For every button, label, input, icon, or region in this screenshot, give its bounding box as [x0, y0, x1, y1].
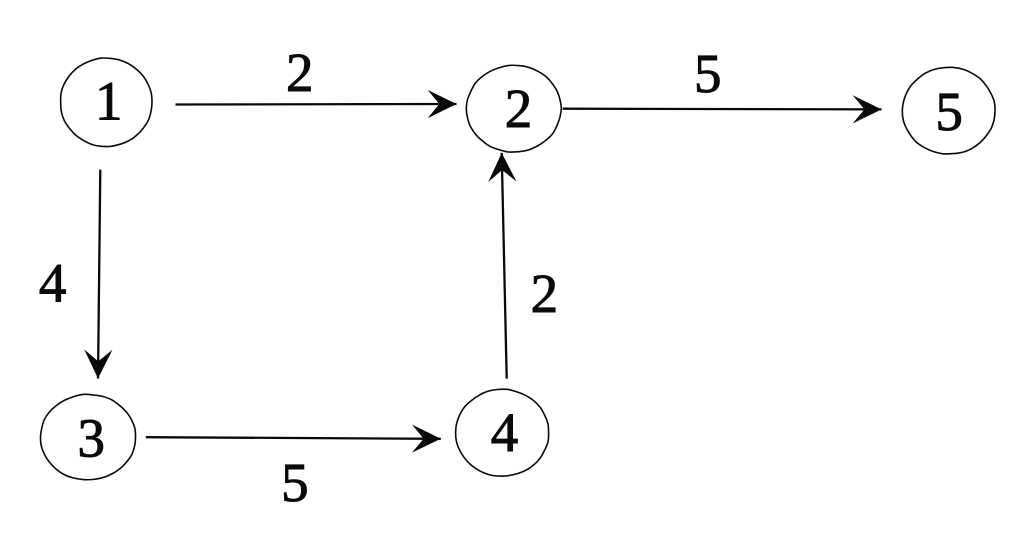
- svg-text:4: 4: [39, 253, 67, 314]
- node 1 circle: [61, 58, 152, 147]
- svg-text:2: 2: [505, 78, 533, 139]
- wire edge 3->4: [146, 437, 441, 439]
- svg-text:5: 5: [281, 452, 309, 513]
- node 3 circle: [40, 394, 135, 479]
- svg-text:3: 3: [77, 408, 105, 469]
- wire edge 1->2: [176, 103, 457, 106]
- svg-text:2: 2: [531, 263, 559, 324]
- wire edge 4->2: [502, 153, 507, 379]
- node 4 circle: [456, 389, 549, 476]
- wire edge 2->5: [563, 108, 882, 111]
- node 5 circle: [902, 67, 995, 154]
- wire edge 1->3: [98, 170, 100, 379]
- svg-text:5: 5: [935, 81, 963, 142]
- svg-text:4: 4: [491, 402, 519, 463]
- svg-text:2: 2: [286, 42, 314, 103]
- svg-text:5: 5: [694, 43, 722, 104]
- node 2 circle: [466, 65, 561, 152]
- svg-text:1: 1: [95, 71, 123, 132]
